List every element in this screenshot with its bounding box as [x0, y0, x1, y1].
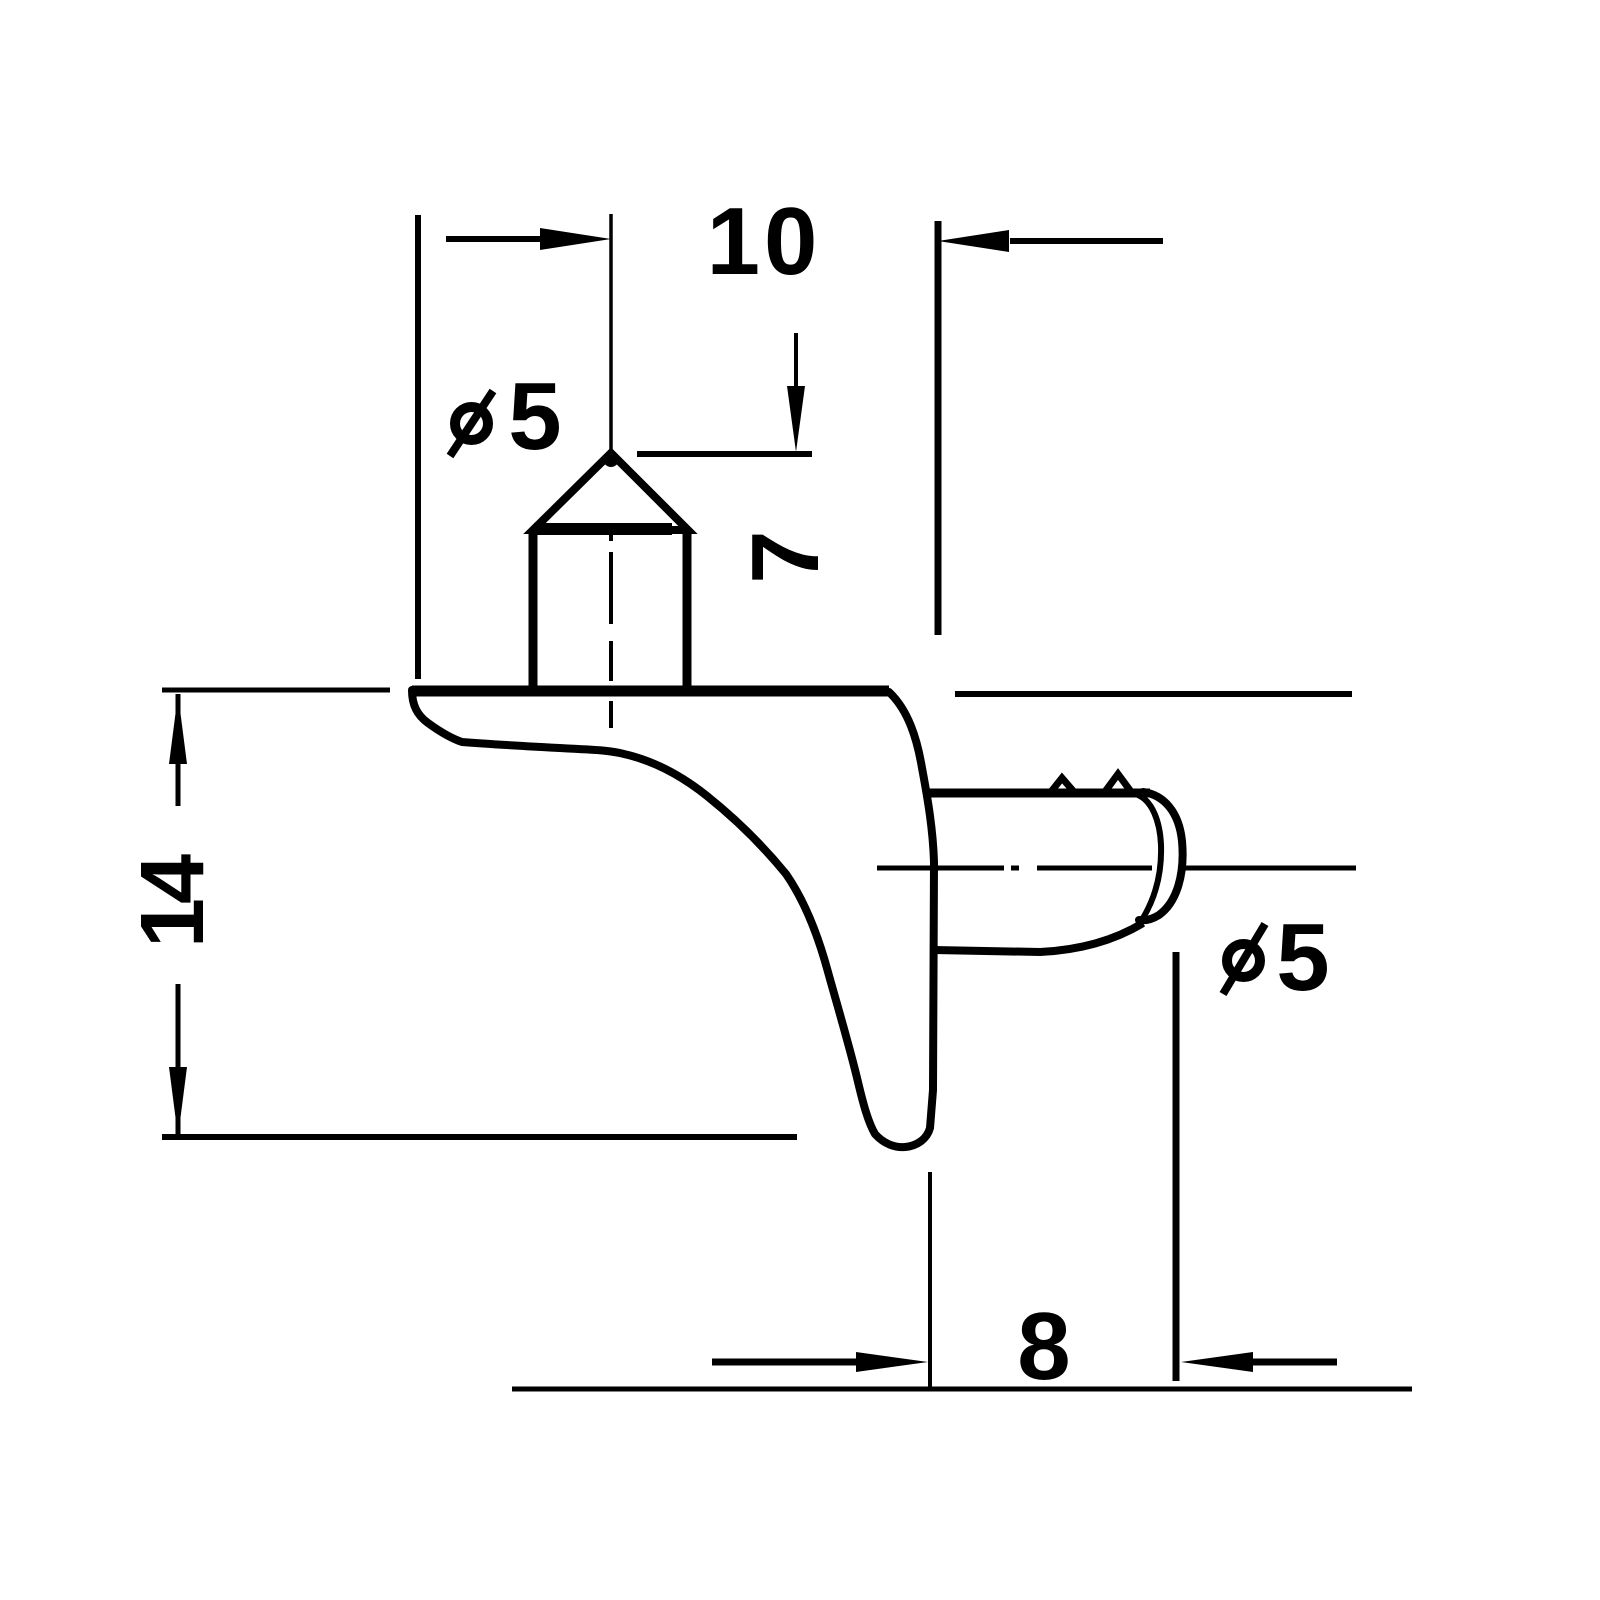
svg-text:8: 8 [1017, 1293, 1070, 1400]
svg-text:7: 7 [732, 530, 839, 583]
svg-text:5: 5 [1276, 904, 1329, 1011]
pin tip apex blob [603, 451, 619, 467]
dimension line 14 lower segment with down arrow [176, 984, 181, 1137]
right pin top edge [926, 789, 1150, 798]
extension line below wall (thin vertical, for dim 8) [928, 1172, 932, 1387]
leader arrow pointing down to pin tip level [794, 333, 798, 400]
extension line top-right (horizontal, from top surface) [955, 691, 1352, 697]
extension line top-left (horizontal, for dim 14) [162, 688, 390, 693]
pin body left edge [529, 531, 538, 689]
right pin barb 1 [1050, 778, 1075, 793]
dimension line 10 left half with arrow [446, 236, 560, 242]
extension line bottom-left (horizontal, for dim 14) [162, 1134, 797, 1140]
dimension symbol ø (left pin diameter) [455, 407, 488, 440]
extension line from pin end (vertical, for dim 8) [1173, 952, 1180, 1381]
extension line right (vertical, for dim 10) [935, 221, 942, 635]
pin tip triangle [533, 453, 688, 530]
pin body right edge [683, 531, 692, 689]
pin tip triangle heavy base [534, 523, 672, 535]
pin centerline dashes (through pin body) [609, 516, 613, 728]
right pin centerline (dash-dot horizontal) [877, 866, 1356, 871]
right pin rounded cap outer [1139, 792, 1183, 920]
extension line left of pin (vertical, for dim 10) [415, 215, 421, 679]
svg-text:14: 14 [123, 854, 223, 948]
dimension symbol ø (right pin diameter) [1227, 944, 1260, 977]
horizontal line at pin apex level [637, 451, 812, 457]
dimension line 14 upper segment with up arrow [176, 694, 181, 806]
bracket top surface line [412, 686, 889, 697]
dimension text 7 (rotated) [732, 530, 839, 583]
right pin barb 2 [1104, 774, 1132, 793]
right pin rounded cap inner [1138, 795, 1161, 918]
bracket body outline (hook, gusset curve, bottom tip, wall right edge) [412, 690, 934, 1147]
dimension line 10 right half with arrow [1010, 238, 1163, 244]
right pin bottom edge [934, 923, 1143, 952]
dimension line 8 right half with arrow [1245, 1359, 1337, 1366]
baseline under dimension 8 [512, 1387, 1412, 1392]
dimension line 8 left half with arrow [712, 1359, 870, 1366]
svg-text:10: 10 [707, 188, 822, 295]
svg-text:5: 5 [508, 363, 561, 470]
dimension text 14 (rotated) [123, 854, 223, 948]
pin centerline upper (vertical) [609, 214, 613, 456]
